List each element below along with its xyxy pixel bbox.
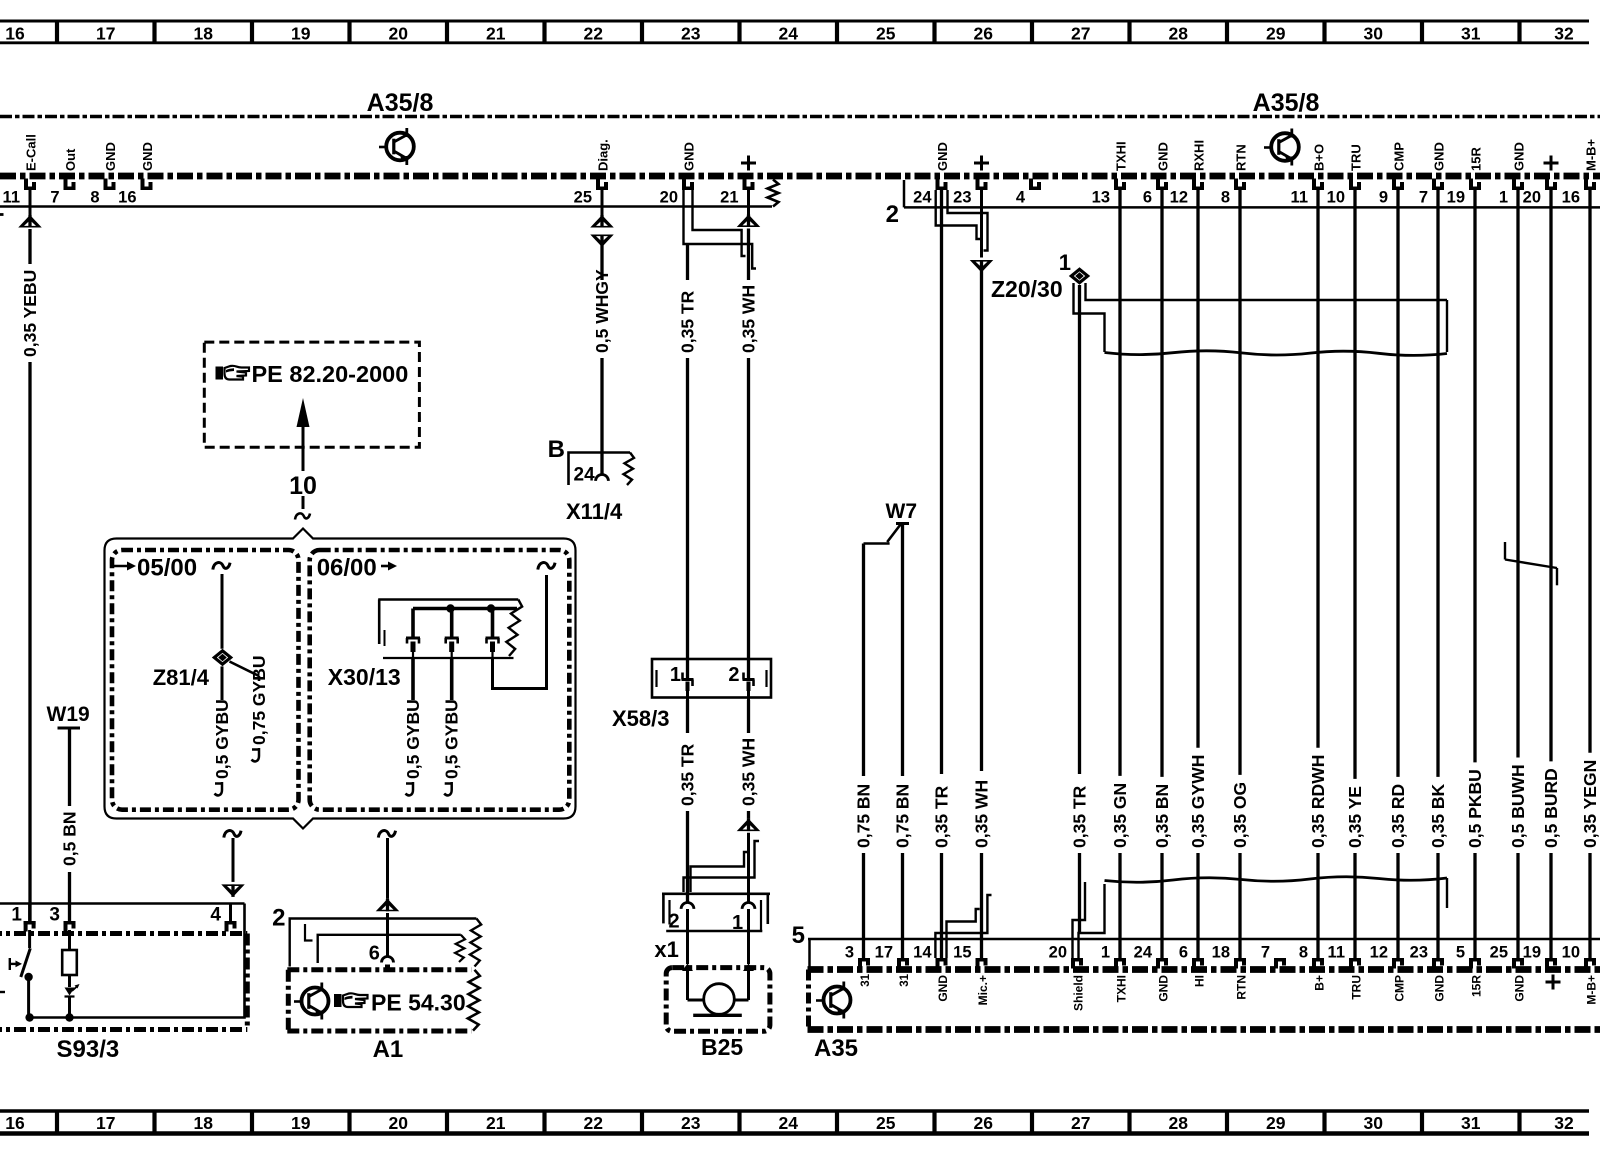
svg-text:30: 30	[1364, 1113, 1384, 1133]
svg-text:1: 1	[670, 664, 681, 686]
svg-text:0,5 WHGY: 0,5 WHGY	[592, 269, 612, 353]
svg-text:0,5 GYBU: 0,5 GYBU	[442, 699, 462, 779]
svg-text:0,35 OG: 0,35 OG	[1230, 782, 1250, 848]
svg-text:23: 23	[681, 1113, 701, 1133]
svg-text:17: 17	[96, 24, 115, 44]
svg-text:7: 7	[1419, 189, 1428, 207]
svg-text:5: 5	[1456, 944, 1465, 962]
svg-text:15R: 15R	[1469, 147, 1484, 171]
svg-text:Mic.+: Mic.+	[976, 975, 990, 1005]
svg-text:0,75 GYBU: 0,75 GYBU	[249, 656, 269, 745]
svg-text:26: 26	[974, 24, 994, 44]
svg-text:6: 6	[1143, 189, 1152, 207]
svg-text:19: 19	[291, 1113, 311, 1133]
svg-text:3: 3	[49, 905, 60, 926]
svg-text:S93/3: S93/3	[57, 1036, 120, 1063]
svg-text:CMP: CMP	[1392, 142, 1407, 171]
svg-text:18: 18	[1212, 944, 1230, 962]
svg-text:B+: B+	[1313, 975, 1327, 991]
svg-text:19: 19	[291, 24, 311, 44]
svg-text:7: 7	[50, 189, 59, 207]
svg-text:24: 24	[779, 24, 799, 44]
svg-text:2: 2	[669, 911, 680, 933]
svg-text:16: 16	[1562, 189, 1580, 207]
svg-text:E-Call: E-Call	[24, 134, 39, 171]
svg-text:10: 10	[1327, 189, 1345, 207]
svg-text:21: 21	[486, 24, 506, 44]
svg-text:W19: W19	[47, 703, 90, 726]
svg-text:Z81/4: Z81/4	[153, 665, 210, 690]
svg-text:1: 1	[1101, 944, 1110, 962]
svg-text:RXHI: RXHI	[1192, 140, 1207, 171]
svg-text:M-B+: M-B+	[1584, 138, 1599, 171]
svg-text:31: 31	[1461, 1113, 1481, 1133]
svg-text:31: 31	[899, 973, 911, 986]
svg-text:16: 16	[5, 1113, 25, 1133]
svg-text:0,35 WH: 0,35 WH	[739, 738, 759, 806]
svg-text:6: 6	[369, 943, 380, 965]
svg-text:1: 1	[11, 905, 22, 926]
svg-text:B25: B25	[701, 1034, 743, 1060]
svg-text:16: 16	[5, 24, 25, 44]
svg-text:Diag.: Diag.	[596, 139, 611, 171]
svg-text:TRU: TRU	[1349, 144, 1364, 171]
svg-text:0,35 TR: 0,35 TR	[678, 743, 698, 806]
svg-text:GND: GND	[1513, 975, 1527, 1002]
svg-text:25: 25	[574, 189, 592, 207]
svg-text:X11/4: X11/4	[566, 499, 623, 524]
svg-text:20: 20	[389, 24, 409, 44]
svg-text:TXHI: TXHI	[1114, 141, 1129, 171]
svg-text:16: 16	[118, 189, 136, 207]
svg-text:A35/8: A35/8	[367, 89, 434, 117]
svg-text:29: 29	[1266, 24, 1286, 44]
svg-text:21: 21	[486, 1113, 506, 1133]
svg-text:2: 2	[728, 664, 739, 686]
svg-text:GND: GND	[103, 142, 118, 171]
svg-text:0,35 YEGN: 0,35 YEGN	[1580, 760, 1600, 848]
svg-text:13: 13	[1092, 189, 1110, 207]
svg-text:PE 82.20-2000: PE 82.20-2000	[252, 361, 409, 387]
svg-text:30: 30	[1364, 24, 1384, 44]
svg-text:12: 12	[1370, 944, 1388, 962]
svg-text:1: 1	[732, 912, 743, 934]
svg-text:GND: GND	[936, 975, 950, 1002]
svg-text:24: 24	[574, 465, 596, 486]
svg-text:17: 17	[875, 944, 893, 962]
svg-text:RTN: RTN	[1234, 144, 1249, 171]
svg-text:B+O: B+O	[1312, 144, 1327, 171]
svg-text:Z20/30: Z20/30	[991, 276, 1063, 302]
svg-text:24: 24	[779, 1113, 799, 1133]
svg-text:22: 22	[584, 1113, 604, 1133]
svg-text:0,35 RD: 0,35 RD	[1388, 784, 1408, 848]
svg-text:X58/3: X58/3	[612, 706, 670, 731]
svg-text:RTN: RTN	[1235, 975, 1249, 1000]
svg-text:29: 29	[1266, 1113, 1286, 1133]
svg-text:4: 4	[210, 905, 221, 926]
svg-text:W7: W7	[886, 500, 918, 523]
svg-text:Out: Out	[63, 148, 78, 171]
svg-text:12: 12	[1170, 189, 1188, 207]
svg-text:0,5 GYBU: 0,5 GYBU	[212, 699, 232, 779]
svg-text:B: B	[548, 436, 565, 463]
svg-text:20: 20	[389, 1113, 409, 1133]
svg-text:0,35 WH: 0,35 WH	[972, 780, 992, 848]
svg-text:27: 27	[1071, 1113, 1090, 1133]
svg-text:31: 31	[860, 973, 872, 986]
svg-text:0,5 BN: 0,5 BN	[60, 812, 80, 866]
svg-text:0,35 TR: 0,35 TR	[932, 785, 952, 848]
svg-text:7: 7	[1261, 944, 1270, 962]
svg-text:CMP: CMP	[1393, 975, 1407, 1002]
svg-text:25: 25	[1490, 944, 1508, 962]
svg-text:11: 11	[3, 189, 20, 207]
svg-text:22: 22	[584, 24, 604, 44]
svg-text:28: 28	[1169, 24, 1189, 44]
svg-text:TXHI: TXHI	[1115, 975, 1129, 1002]
svg-text:GND: GND	[1156, 142, 1171, 171]
svg-text:32: 32	[1554, 24, 1574, 44]
svg-text:19: 19	[1447, 189, 1465, 207]
svg-text:15R: 15R	[1470, 975, 1484, 997]
svg-text:M-B+: M-B+	[1585, 975, 1599, 1005]
svg-text:GND: GND	[682, 142, 697, 171]
svg-text:0,5 GYBU: 0,5 GYBU	[403, 699, 423, 779]
svg-text:24: 24	[1134, 944, 1153, 962]
svg-text:1: 1	[1059, 250, 1071, 275]
svg-text:14: 14	[913, 944, 932, 962]
svg-text:HI: HI	[1193, 975, 1207, 987]
svg-text:0,75 BN: 0,75 BN	[854, 784, 874, 848]
svg-text:8: 8	[1299, 944, 1308, 962]
svg-text:1: 1	[1499, 189, 1508, 207]
svg-text:x1: x1	[654, 937, 678, 962]
svg-text:20: 20	[660, 189, 678, 207]
svg-text:3: 3	[845, 944, 854, 962]
svg-text:23: 23	[953, 189, 971, 207]
svg-text:11: 11	[1291, 189, 1308, 207]
svg-text:0,35 GYWH: 0,35 GYWH	[1188, 755, 1208, 848]
svg-text:GND: GND	[1433, 975, 1447, 1002]
svg-text:6: 6	[1179, 944, 1188, 962]
svg-text:0,5 PKBU: 0,5 PKBU	[1465, 769, 1485, 848]
svg-text:GND: GND	[1157, 975, 1171, 1002]
svg-text:0,35 RDWH: 0,35 RDWH	[1308, 755, 1328, 848]
svg-text:20: 20	[1523, 189, 1541, 207]
svg-text:GND: GND	[935, 142, 950, 171]
svg-text:GND: GND	[1432, 142, 1447, 171]
svg-text:0,35 TR: 0,35 TR	[1070, 785, 1090, 848]
svg-text:0,35 BK: 0,35 BK	[1428, 783, 1448, 848]
svg-text:05/00: 05/00	[137, 555, 197, 582]
svg-text:17: 17	[96, 1113, 115, 1133]
svg-text:19: 19	[1523, 944, 1541, 962]
svg-text:5: 5	[792, 922, 805, 949]
svg-text:9: 9	[1379, 189, 1388, 207]
svg-text:21: 21	[720, 189, 738, 207]
svg-text:18: 18	[194, 1113, 214, 1133]
svg-text:31: 31	[1461, 24, 1481, 44]
svg-text:11: 11	[1328, 944, 1345, 962]
svg-text:10: 10	[1562, 944, 1580, 962]
svg-text:20: 20	[1049, 944, 1067, 962]
svg-text:18: 18	[194, 24, 214, 44]
svg-text:0,5 BUWH: 0,5 BUWH	[1508, 764, 1528, 848]
svg-text:4: 4	[1016, 189, 1026, 207]
svg-text:8: 8	[1221, 189, 1230, 207]
svg-text:32: 32	[1554, 1113, 1574, 1133]
svg-text:27: 27	[1071, 24, 1090, 44]
svg-text:23: 23	[681, 24, 701, 44]
svg-text:A35/8: A35/8	[1253, 89, 1320, 117]
svg-text:25: 25	[876, 1113, 896, 1133]
svg-text:A1: A1	[373, 1036, 404, 1063]
svg-text:28: 28	[1169, 1113, 1189, 1133]
svg-text:0,35 GN: 0,35 GN	[1110, 783, 1130, 848]
svg-text:PE 54.30: PE 54.30	[371, 990, 466, 1016]
svg-text:25: 25	[876, 24, 896, 44]
svg-text:15: 15	[953, 944, 971, 962]
svg-text:0,35 WH: 0,35 WH	[739, 285, 759, 353]
svg-text:GND: GND	[1512, 142, 1527, 171]
svg-text:24: 24	[913, 189, 932, 207]
svg-text:A35: A35	[814, 1035, 858, 1062]
svg-text:8: 8	[90, 189, 99, 207]
svg-text:0,35 BN: 0,35 BN	[1152, 784, 1172, 848]
svg-text:0,75 BN: 0,75 BN	[893, 784, 913, 848]
svg-text:0,35 YEBU: 0,35 YEBU	[20, 270, 40, 357]
svg-text:10: 10	[289, 472, 317, 500]
svg-text:26: 26	[974, 1113, 994, 1133]
svg-text:2: 2	[272, 905, 285, 932]
svg-text:X30/13: X30/13	[328, 664, 401, 690]
svg-text:0,5 BURD: 0,5 BURD	[1541, 768, 1561, 848]
svg-text:2: 2	[886, 201, 899, 228]
svg-text:Shield: Shield	[1072, 975, 1086, 1011]
svg-text:06/00: 06/00	[317, 555, 377, 582]
svg-text:GND: GND	[140, 142, 155, 171]
svg-text:0,35 TR: 0,35 TR	[678, 290, 698, 353]
svg-text:0,35 YE: 0,35 YE	[1345, 786, 1365, 848]
svg-text:23: 23	[1410, 944, 1428, 962]
svg-text:TRU: TRU	[1350, 975, 1364, 1000]
